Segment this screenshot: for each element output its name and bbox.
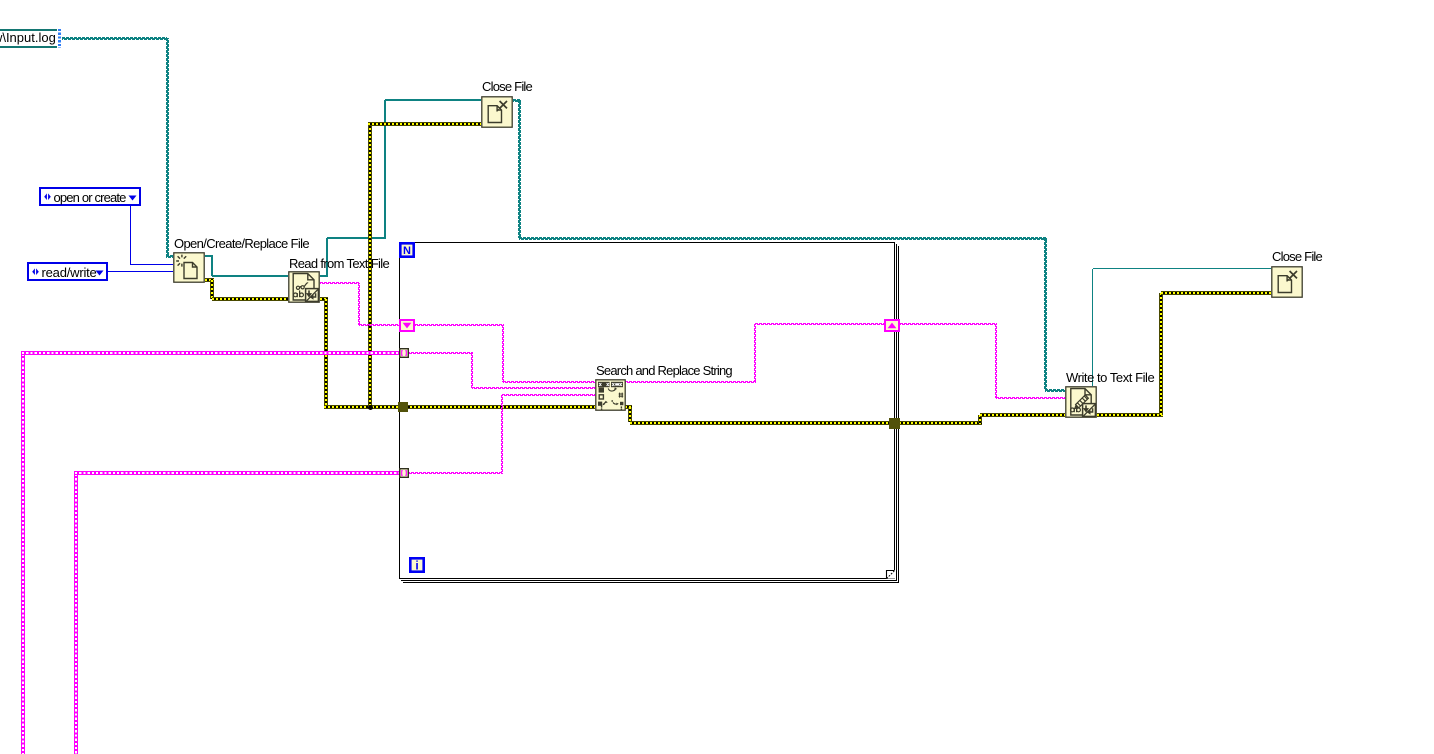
wire — [978, 415, 982, 424]
wire — [21, 353, 25, 754]
right shift register — [884, 319, 900, 332]
wire — [211, 256, 213, 276]
error tunnel left — [398, 402, 408, 412]
wire — [205, 278, 214, 282]
wire — [320, 297, 328, 301]
enum constant read/write — [27, 262, 108, 281]
label Open/Create/Replace File — [174, 237, 309, 251]
node Open/Create/Replace File — [173, 252, 205, 283]
for loop frame — [399, 242, 400, 579]
wire — [166, 255, 174, 258]
wire — [1097, 413, 1163, 417]
wire — [980, 413, 1065, 417]
wire — [625, 405, 632, 409]
node Close File right — [1271, 266, 1303, 298]
wire — [320, 275, 328, 277]
node Close File top — [481, 96, 513, 128]
wire — [407, 472, 503, 474]
wire — [130, 206, 131, 265]
wire — [1161, 291, 1271, 295]
page curl — [885, 569, 895, 579]
wire — [131, 264, 174, 265]
wire — [900, 323, 997, 325]
wire — [513, 99, 521, 102]
path constant w\Input.log — [0, 29, 57, 47]
wire — [1045, 389, 1065, 392]
wire — [74, 473, 78, 754]
wire — [1159, 293, 1163, 415]
label Search and Replace String — [596, 364, 732, 378]
enum constant open or create — [39, 187, 141, 206]
wire — [628, 407, 632, 422]
wire — [210, 280, 214, 299]
wire — [754, 324, 756, 382]
wire — [1092, 269, 1094, 387]
wire — [212, 297, 288, 301]
wire — [320, 282, 360, 284]
wire — [108, 271, 173, 272]
loop count terminal N — [399, 242, 415, 258]
label Read from Text File — [289, 257, 389, 271]
wire — [384, 100, 386, 239]
selection handles — [58, 29, 61, 48]
wire — [518, 100, 521, 238]
node Search and Replace String — [595, 379, 626, 411]
wire — [519, 237, 1047, 240]
wire — [212, 275, 288, 277]
wire — [21, 351, 400, 355]
label Write to Text File — [1066, 371, 1154, 385]
wire — [358, 283, 360, 325]
error tunnel right — [889, 418, 900, 429]
wire — [625, 381, 756, 383]
wire — [630, 421, 890, 425]
svg-text:N: N — [403, 245, 411, 257]
wire — [385, 99, 481, 101]
junction — [368, 405, 373, 410]
wire — [74, 471, 399, 475]
indexing tunnel replace strings — [399, 468, 409, 478]
wire — [415, 324, 504, 326]
label Close File top — [482, 80, 532, 94]
wire — [995, 324, 997, 398]
wire — [368, 122, 481, 126]
node Write to Text File — [1065, 386, 1097, 418]
wire — [502, 325, 504, 382]
node Read from Text File — [288, 271, 320, 303]
left shift register — [399, 319, 415, 332]
indexing tunnel search strings — [399, 348, 409, 358]
wire — [326, 238, 328, 277]
wire — [368, 124, 372, 405]
wire — [996, 397, 1065, 399]
wire — [62, 37, 167, 40]
loop iteration terminal i — [409, 557, 425, 573]
wire — [324, 299, 328, 407]
svg-text:i: i — [415, 559, 418, 573]
wire — [899, 421, 982, 425]
wire — [166, 38, 169, 256]
label Close File right — [1272, 250, 1322, 264]
wire — [327, 237, 386, 239]
wire — [502, 394, 596, 396]
wire — [359, 324, 399, 326]
wire — [1044, 238, 1047, 390]
wire — [406, 405, 595, 409]
wire — [503, 381, 595, 383]
wire — [472, 387, 595, 389]
wire — [755, 323, 884, 325]
wire — [501, 395, 503, 473]
wire — [324, 405, 399, 409]
wire — [407, 352, 473, 354]
wire — [1093, 268, 1271, 270]
wire — [471, 353, 473, 389]
wire — [205, 255, 213, 257]
